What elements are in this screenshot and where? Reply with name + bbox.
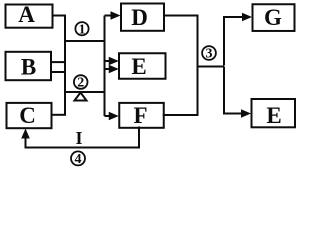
svg-text:C: C: [19, 103, 36, 128]
svg-text:2: 2: [77, 76, 84, 91]
svg-text:F: F: [133, 103, 147, 128]
svg-text:D: D: [131, 5, 148, 30]
svg-text:E: E: [266, 103, 281, 128]
svg-text:1: 1: [79, 22, 86, 37]
svg-text:I: I: [75, 128, 82, 148]
svg-text:E: E: [131, 54, 146, 79]
svg-text:A: A: [18, 2, 35, 27]
svg-text:3: 3: [206, 47, 213, 62]
svg-text:B: B: [21, 54, 36, 79]
svg-text:4: 4: [75, 152, 82, 167]
svg-text:G: G: [264, 5, 282, 30]
